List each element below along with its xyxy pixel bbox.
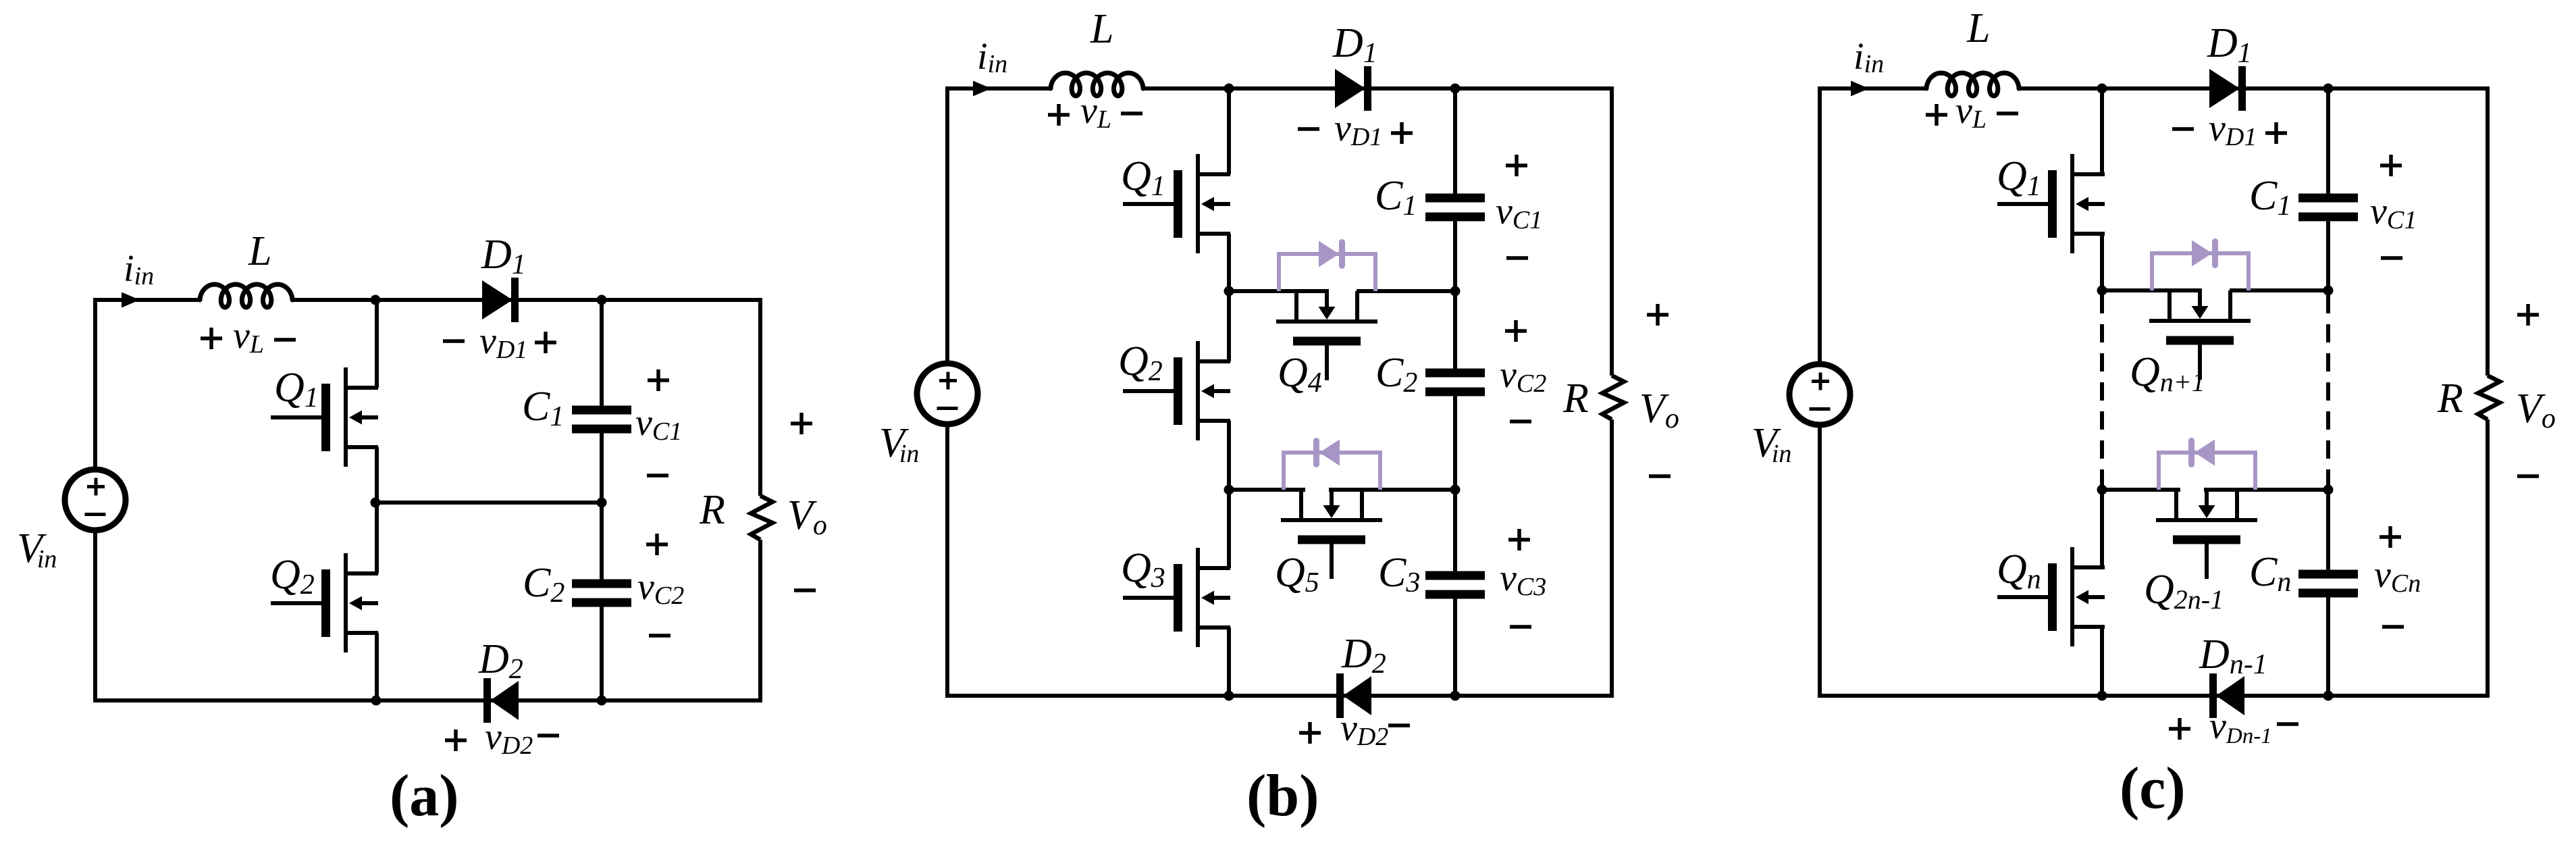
body diode of Q5 (b)	[1282, 453, 1286, 490]
label - vD1 + (b)	[1298, 127, 1319, 131]
right rail wire (c)	[2486, 86, 2490, 376]
label + vDn-1 - (c)	[2169, 727, 2190, 731]
label - vD1 + (c)	[2172, 127, 2194, 131]
inductor L (a)	[200, 284, 292, 307]
label + for Vo (a)	[791, 421, 812, 426]
wire C2 to bottom rail (a)	[600, 603, 604, 702]
label - for Vo (b)	[1649, 474, 1671, 478]
capacitor C3 (b)	[1425, 571, 1485, 580]
wire rail 1 to C2 (b)	[1453, 291, 1457, 373]
label + vD2 - (b)	[1299, 731, 1321, 735]
wire Q2 source to bottom rail (a)	[375, 633, 379, 702]
diode D1 (b)	[1335, 69, 1365, 108]
switch rail 1 right segment (c)	[2230, 288, 2328, 292]
wire Qn drain (c)	[2100, 490, 2104, 567]
switch rail 1 left segment (c)	[2102, 288, 2202, 292]
right rail wire (b)	[1610, 86, 1614, 376]
svg-text:(a): (a)	[390, 763, 459, 829]
diode D2 (b)	[1343, 676, 1371, 715]
node C2 / bottom rail (a)	[597, 696, 607, 706]
circuit (b) left rail wire	[945, 88, 949, 363]
diode D1 (c)	[2209, 69, 2240, 108]
label + vC2 - (b)	[1505, 329, 1527, 333]
wire Q3 source to bottom rail (b)	[1227, 628, 1231, 698]
svg-text:L: L	[1966, 5, 1990, 51]
wire C1 to mid node (a)	[600, 429, 604, 503]
capacitor C1 (c)	[2298, 194, 2358, 203]
label + for Vo (c)	[2517, 313, 2539, 317]
body diode of Q4 (b)	[1277, 254, 1281, 291]
label + vL - (b)	[1048, 113, 1070, 117]
label + vL - (a)	[201, 336, 222, 340]
switch rail 2 left segment (b)	[1229, 488, 1305, 492]
label + for Vo (b)	[1647, 313, 1668, 317]
circuit (b) top rail wire	[945, 86, 1051, 91]
node D1 cathode / C1 (a)	[597, 295, 607, 305]
node Q1 source / mid rail (a)	[371, 498, 381, 508]
node Cn / bottom rail (c)	[2323, 691, 2334, 701]
wire Q1 source to node (c)	[2100, 234, 2104, 292]
svg-text:L: L	[248, 228, 271, 274]
inductor L (b)	[1051, 73, 1143, 96]
svg-text:(b): (b)	[1246, 763, 1319, 829]
transistor Q3 (b)	[1196, 548, 1200, 647]
switch rail 2 left segment (c)	[2102, 488, 2180, 492]
wire rail 2 to C3 (b)	[1453, 490, 1457, 575]
wire C2 to rail 2 (b)	[1453, 392, 1457, 490]
switch rail 2 right segment (b)	[1329, 488, 1455, 492]
input current arrow i_in (c)	[1851, 81, 1869, 97]
wire top node to C1 (c)	[2326, 88, 2330, 198]
svg-text:R: R	[699, 487, 725, 533]
wire C1 to rail 1 (b)	[1453, 217, 1457, 291]
wire Q2 drain (a)	[375, 503, 379, 573]
node switch rail 1 / C1-C2 (b)	[1450, 286, 1461, 297]
capacitor C1 (b)	[1425, 194, 1485, 203]
wire Q2 source to node (b)	[1227, 421, 1231, 492]
input current arrow i_in (b)	[973, 81, 991, 97]
wire Q1 drain (c)	[2100, 88, 2104, 174]
node at inductor/Q1/D1 junction (a)	[371, 295, 381, 305]
switch rail 2 right segment (c)	[2204, 488, 2328, 492]
node switch rail 2 / C2-C3 (b)	[1450, 485, 1461, 495]
node Q3 source / bottom rail (b)	[1224, 691, 1234, 701]
svg-text:R: R	[1562, 376, 1589, 421]
wire rail 2 to Cn (c)	[2326, 490, 2330, 574]
label + vC1 - (a)	[648, 378, 669, 382]
label - for Vo (c)	[2517, 474, 2539, 478]
voltage source Vin (c)	[1789, 364, 1850, 425]
mid rail wire (a)	[375, 501, 602, 505]
label + vC1 - (c)	[2380, 163, 2402, 168]
wire top node to C1 (b)	[1453, 88, 1457, 198]
wire Q1 source to mid node (a)	[375, 447, 379, 505]
wire C3 to bottom rail (b)	[1453, 594, 1457, 698]
node D1 cathode / C1 (c)	[2323, 84, 2334, 94]
circuit (a) top rail wire	[93, 298, 200, 302]
bottom rail wire (b)	[945, 694, 1614, 698]
node Qn source / bottom rail (c)	[2097, 691, 2107, 701]
transistor Q2n-1 (c)	[2156, 518, 2257, 522]
capacitor C2 (a)	[572, 580, 631, 588]
wire Qn source to bottom rail (c)	[2100, 627, 2104, 698]
node D1 cathode / C1 (b)	[1450, 84, 1461, 94]
label + vL - (c)	[1926, 113, 1947, 117]
node Q1 source / switch rail 1 (b)	[1224, 286, 1234, 297]
switch rail 1 left segment (b)	[1229, 289, 1329, 293]
node switch rail 2 / Cn (c)	[2323, 485, 2334, 495]
wire Q3 drain (b)	[1227, 490, 1231, 568]
transistor Q2 (a)	[344, 553, 348, 652]
capacitor C1 (a)	[572, 406, 631, 415]
node Q1 source / switch rail 1 (c)	[2097, 286, 2107, 296]
circuit (c) left rail wire	[1818, 88, 1822, 364]
svg-text:(c): (c)	[2120, 756, 2186, 821]
svg-text:L: L	[1090, 6, 1113, 52]
bottom rail wire (a)	[93, 698, 762, 702]
switch rail 1 right segment (b)	[1357, 289, 1455, 293]
wire C1 to rail 1 (c)	[2326, 217, 2330, 290]
wire mid node to C2 (a)	[600, 503, 604, 584]
svg-text:R: R	[2437, 376, 2463, 421]
wire Cn to bottom rail (c)	[2326, 593, 2330, 698]
body diode of Qn+1 (c)	[2150, 253, 2154, 290]
dashed continuation left (c)	[2100, 295, 2104, 488]
circuit (c) top rail wire	[1818, 86, 1926, 91]
transistor Q1 (b)	[1196, 154, 1200, 253]
bottom rail wire (c)	[1818, 694, 2490, 698]
capacitor Cn (c)	[2298, 570, 2358, 579]
transistor Q2 (b)	[1196, 341, 1200, 440]
transistor Q5 (b)	[1281, 518, 1382, 522]
node Q2 source / bottom rail (a)	[371, 696, 382, 706]
wire Q1 drain (b)	[1227, 88, 1231, 174]
transistor Qn+1 (c)	[2149, 319, 2251, 323]
voltage source Vin (a)	[65, 469, 126, 530]
node mid rail / C1-C2 (a)	[597, 498, 607, 508]
node switch rail 1 / C1 (c)	[2323, 286, 2334, 296]
node switch rail 2 left (c)	[2097, 485, 2107, 495]
label - vD1 + (a)	[443, 339, 465, 343]
label + vCn - (c)	[2380, 535, 2401, 539]
diode D1 (a)	[482, 280, 512, 319]
node Q2 source / switch rail 2 (b)	[1224, 485, 1234, 495]
dashed continuation right (c)	[2326, 295, 2330, 488]
resistor R (b)	[1602, 376, 1624, 419]
transistor Q1 (c)	[2070, 154, 2074, 253]
body diode of Q2n-1 (c)	[2157, 453, 2161, 490]
resistor R (c)	[2478, 376, 2500, 419]
input current arrow i_in (a)	[122, 292, 140, 308]
label - for Vo (a)	[794, 588, 816, 592]
transistor Qn (c)	[2070, 547, 2074, 646]
resistor R (a)	[751, 496, 772, 540]
label + vD2 - (a)	[445, 738, 467, 742]
transistor Q1 (a)	[344, 367, 348, 467]
label + vC2 - (a)	[646, 542, 668, 546]
diode Dn-1 (c)	[2216, 676, 2244, 715]
capacitor C2 (b)	[1425, 369, 1485, 378]
voltage source Vin (b)	[917, 363, 978, 424]
diode D2 (a)	[490, 681, 519, 720]
wire Q1 source to node (b)	[1227, 234, 1231, 293]
inductor L (c)	[1926, 73, 2019, 96]
label + vC1 - (b)	[1506, 163, 1527, 168]
label + vC3 - (b)	[1508, 538, 1530, 542]
transistor Q4 (b)	[1276, 319, 1377, 324]
node inductor/Q1/D1 (b)	[1224, 84, 1234, 94]
right rail wire (a)	[758, 298, 762, 496]
circuit (a) left rail wire	[93, 300, 97, 469]
wire Q1 drain (a)	[375, 300, 379, 388]
node C3 / bottom rail (b)	[1450, 691, 1461, 701]
wire D1 node to C1 (a)	[600, 300, 604, 410]
node inductor/Q1/D1 (c)	[2097, 84, 2107, 94]
wire Q2 drain (b)	[1227, 291, 1231, 361]
